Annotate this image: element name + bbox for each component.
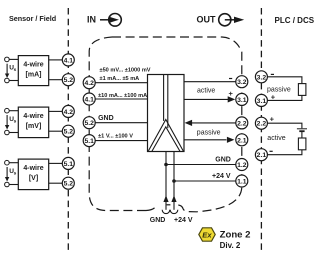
active load wiring top — [267, 123, 302, 128]
device terminal 5.1 — [83, 135, 95, 147]
sign minus 3.2 inner — [229, 78, 232, 79]
svg-text:active: active — [197, 88, 215, 95]
OUT symbol wire — [225, 19, 237, 21]
svg-text:5.2: 5.2 — [64, 181, 74, 188]
right separator dashed line — [260, 8, 262, 250]
arrowhead GND up — [163, 195, 168, 202]
svg-text:5.2: 5.2 — [64, 129, 74, 136]
wire input 5.2 GND to amplifier — [95, 122, 148, 124]
Us arrow — [6, 115, 8, 126]
wire input 5.1 to amplifier — [95, 140, 148, 142]
resistor R passive — [298, 84, 306, 96]
wire input 4.2 to amplifier — [95, 82, 148, 84]
wire — [49, 59, 63, 61]
source circle top — [5, 57, 10, 62]
isolation amplifier U1 box — [148, 75, 185, 152]
svg-text:+24 V: +24 V — [174, 217, 193, 224]
wire power GND vertical — [165, 152, 167, 210]
active load wiring mid — [301, 132, 303, 138]
PLC terminal 3.1 — [255, 94, 267, 106]
junction GND — [164, 163, 168, 167]
Us arrow — [6, 167, 8, 178]
svg-text:2.1: 2.1 — [257, 152, 267, 159]
svg-text:2.2: 2.2 — [237, 120, 247, 127]
IN symbol arrowhead — [109, 17, 119, 23]
svg-text:5.1: 5.1 — [84, 138, 94, 145]
terminal 4.1 — [62, 54, 74, 66]
IN symbol circle — [109, 13, 122, 26]
svg-text:s: s — [14, 68, 17, 73]
svg-text:4-wire: 4-wire — [23, 113, 43, 120]
wire power +24V vertical — [173, 152, 175, 210]
svg-text:[V]: [V] — [29, 175, 38, 182]
source circle top — [5, 160, 10, 165]
terminal 5.1 — [62, 157, 74, 169]
svg-text:±1 mA... ±5 mA: ±1 mA... ±5 mA — [100, 76, 140, 82]
svg-text:4-wire: 4-wire — [23, 62, 43, 69]
svg-text:Sensor / Field: Sensor / Field — [9, 14, 56, 23]
svg-text:5.2: 5.2 — [84, 120, 94, 127]
device terminal 2.2 — [236, 117, 248, 129]
wire GND branch to 1.2 — [166, 164, 236, 166]
OUT symbol arrowhead — [234, 17, 244, 23]
wire — [49, 130, 63, 132]
svg-text:GND: GND — [150, 217, 166, 224]
IN symbol wire — [100, 19, 110, 21]
sign minus 2.1 outer — [270, 151, 273, 152]
sensor block 2: 4-wire [mV] — [5, 105, 75, 137]
wire — [9, 58, 18, 60]
Us arrow — [6, 64, 8, 74]
wire dashed edge rise — [146, 206, 156, 210]
svg-text:±50 mV... ±1000 mV: ±50 mV... ±1000 mV — [100, 68, 151, 74]
wire — [49, 79, 63, 81]
svg-text:+: + — [229, 89, 234, 98]
passive load wiring — [267, 77, 302, 84]
wire — [9, 110, 18, 112]
svg-text:5.2: 5.2 — [64, 77, 74, 84]
svg-text:1.1: 1.1 — [237, 178, 247, 185]
arrowhead +24V up — [171, 195, 176, 202]
svg-text:GND: GND — [215, 157, 231, 164]
box 4-wire [V] — [18, 159, 48, 190]
Ex hexagon symbol — [199, 228, 215, 241]
sign minus 3.2 outer — [271, 74, 274, 75]
device terminal 4.2 — [83, 77, 95, 89]
wire — [9, 132, 18, 134]
svg-text:+: + — [270, 114, 275, 123]
junction +24V — [172, 179, 176, 183]
device terminal 2.1 — [236, 134, 248, 146]
svg-text:4.2: 4.2 — [64, 109, 74, 116]
OUT symbol circle — [219, 14, 231, 26]
dash between sockets — [167, 204, 171, 206]
svg-text:passive: passive — [267, 87, 291, 94]
svg-text:3.1: 3.1 — [237, 97, 247, 104]
PLC terminal 2.1 — [255, 149, 267, 161]
svg-text:[mA]: [mA] — [26, 72, 42, 79]
PLC terminal 2.2 — [255, 117, 267, 129]
wire input 4.1 to amplifier — [95, 98, 148, 100]
svg-text:3.1: 3.1 — [257, 98, 267, 105]
svg-text:±1 V... ±100 V: ±1 V... ±100 V — [98, 134, 133, 140]
svg-text:±10 mA... ±100 mA: ±10 mA... ±100 mA — [98, 93, 147, 99]
device terminal 1.1 — [236, 175, 248, 187]
svg-text:4.1: 4.1 — [84, 96, 94, 103]
wire — [9, 162, 18, 164]
svg-text:4.1: 4.1 — [64, 57, 74, 64]
svg-text:2.1: 2.1 — [237, 137, 247, 144]
svg-text:[mV]: [mV] — [26, 123, 42, 130]
svg-text:3.2: 3.2 — [237, 79, 247, 86]
svg-text:Zone 2: Zone 2 — [220, 229, 251, 240]
left separator dashed line — [67, 8, 69, 250]
wire — [49, 162, 63, 164]
wire — [49, 182, 63, 184]
wire — [49, 110, 63, 112]
device terminal 4.1 — [83, 93, 95, 105]
sensor block 1: 4-wire [mA] — [5, 54, 75, 86]
passive load wiring bottom — [267, 95, 302, 100]
svg-text:active: active — [267, 135, 285, 142]
source circle top — [5, 108, 10, 113]
wire output to 3.2 — [184, 81, 236, 83]
svg-text:4.2: 4.2 — [84, 80, 94, 87]
terminal 5.2 — [62, 74, 74, 86]
svg-text:2.2: 2.2 — [257, 121, 267, 128]
device terminal 3.1 — [236, 93, 248, 105]
wire output to 2.1 with arrow — [184, 139, 227, 141]
svg-text:PLC / DCS: PLC / DCS — [275, 16, 315, 25]
device dashed outline — [89, 37, 242, 212]
device terminal 3.2 — [236, 76, 248, 88]
box 4-wire [mA] — [18, 56, 48, 86]
svg-text:s: s — [14, 172, 17, 177]
device terminal 1.2 — [236, 159, 248, 171]
socket GND — [162, 210, 170, 214]
wire output to 3.1 with arrow — [184, 98, 228, 100]
svg-text:4-wire: 4-wire — [23, 165, 43, 172]
svg-text:s: s — [14, 120, 17, 125]
svg-text:1.2: 1.2 — [237, 162, 247, 169]
box 4-wire [mV] — [18, 107, 48, 138]
terminal 5.2 — [62, 177, 74, 189]
PLC terminal 3.2 — [255, 71, 267, 83]
isolation barrier symbol — [163, 75, 165, 121]
sensor block 3: 4-wire [V] — [5, 157, 75, 189]
svg-text:3.2: 3.2 — [257, 74, 267, 81]
svg-text:Div. 2: Div. 2 — [220, 241, 241, 250]
resistor R active — [298, 138, 306, 150]
svg-text:GND: GND — [98, 115, 114, 122]
source circle bottom — [5, 78, 10, 83]
svg-text:IN: IN — [87, 15, 96, 25]
svg-text:OUT: OUT — [197, 15, 217, 25]
svg-text:+24 V: +24 V — [212, 173, 231, 180]
terminal 5.2 — [62, 125, 74, 137]
wire input from 2.2 with arrow — [192, 122, 236, 124]
device terminal 5.2 — [83, 117, 95, 129]
wire — [9, 80, 18, 82]
svg-text:Ex: Ex — [202, 230, 212, 239]
wire — [9, 184, 18, 186]
active load wiring bottom — [267, 150, 302, 155]
terminal 4.2 — [62, 105, 74, 117]
battery symbol — [297, 128, 307, 130]
wire +24V branch to 1.1 — [174, 180, 236, 182]
svg-text:passive: passive — [197, 129, 221, 136]
source circle bottom — [5, 130, 10, 135]
source circle bottom — [5, 182, 10, 187]
socket +24V — [170, 210, 178, 214]
svg-text:5.1: 5.1 — [64, 161, 74, 168]
